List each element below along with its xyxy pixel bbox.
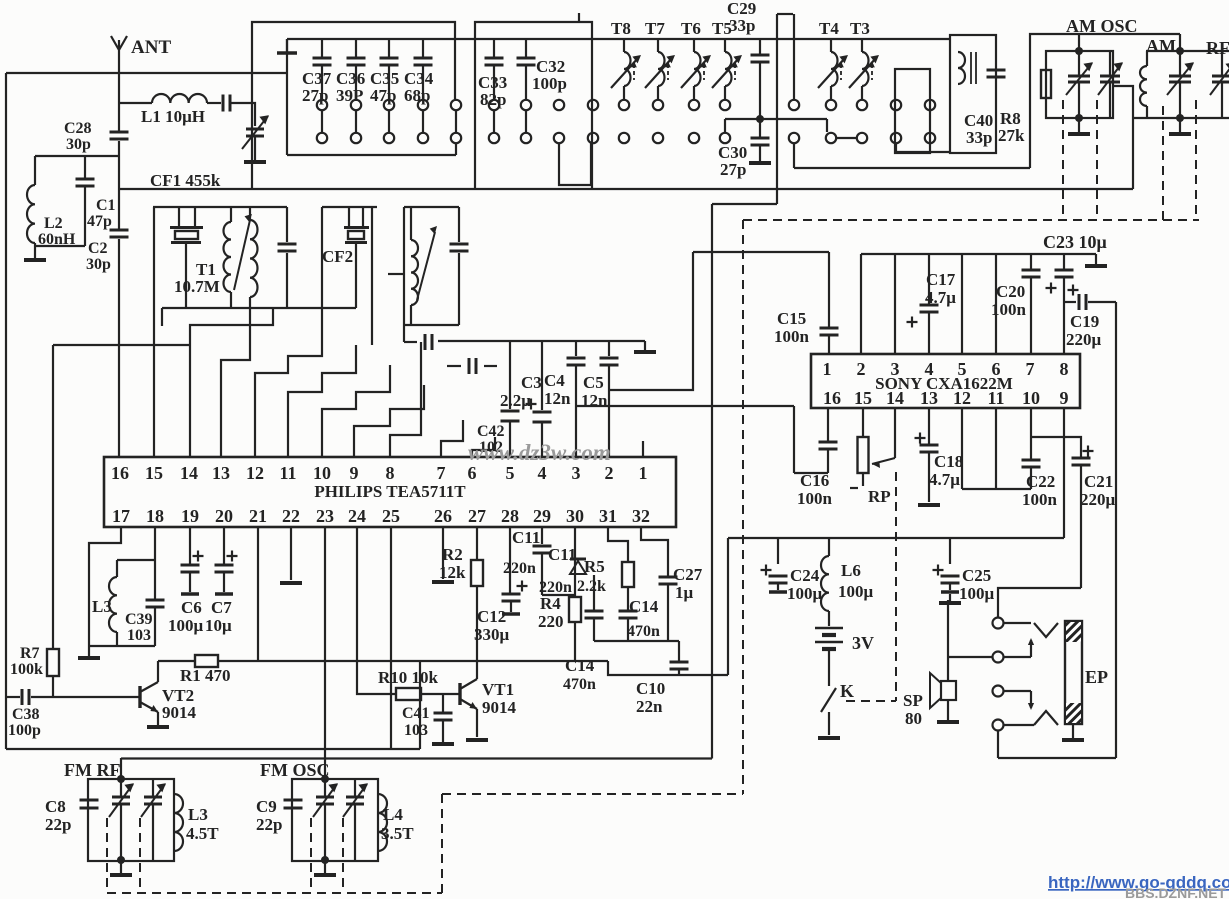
capacitor C39 103	[154, 527, 156, 599]
svg-text:4.7μ: 4.7μ	[929, 470, 960, 489]
capacitor C11 220n (pin29)	[541, 527, 543, 544]
wire: pin5 to rail	[961, 254, 963, 354]
svg-text:100n: 100n	[774, 327, 810, 346]
capacitor C5 12n	[608, 341, 610, 356]
trimmer capacitor (AM)	[1179, 51, 1181, 75]
ground (EP)	[1072, 724, 1074, 738]
svg-text:100μ: 100μ	[168, 616, 204, 635]
svg-text:100k: 100k	[10, 661, 43, 678]
wire: pin25 to shield	[390, 527, 392, 749]
svg-text:C12: C12	[477, 607, 506, 626]
svg-text:9014: 9014	[162, 703, 197, 722]
wire: shield box right edge segment	[419, 661, 421, 749]
terminal circles (box2)	[489, 100, 499, 110]
svg-text:BBS.DZNF.NET: BBS.DZNF.NET	[1125, 885, 1227, 899]
svg-text:6: 6	[992, 359, 1001, 379]
svg-text:C8: C8	[45, 797, 66, 816]
svg-text:C14: C14	[629, 597, 659, 616]
wire: pin10 branch to C21	[1031, 437, 1081, 457]
svg-text:100n: 100n	[1022, 490, 1058, 509]
terminal circles (column x=794)	[789, 100, 799, 110]
svg-text:C7: C7	[211, 598, 232, 617]
svg-text:SP: SP	[903, 691, 923, 710]
terminal circles (T5)	[720, 100, 730, 110]
wire: pin6 staircase	[472, 437, 495, 457]
svg-text:22n: 22n	[636, 697, 663, 716]
capacitor C28	[110, 131, 129, 134]
wire: long horizontal to R7 branch	[53, 344, 190, 346]
wire: cluster bottom rail	[594, 640, 679, 642]
ground (L2)	[34, 246, 36, 258]
wire: pin23 to FM OSC tank	[324, 527, 326, 779]
ground (VT2 emitter)	[147, 725, 169, 729]
wire: oscillator vertical line B	[793, 14, 795, 99]
svg-text:PHILIPS TEA5711T: PHILIPS TEA5711T	[314, 482, 466, 501]
transistor VT1 9014	[458, 683, 461, 705]
ground (antenna trimmer)	[244, 160, 266, 164]
svg-text:T3: T3	[850, 19, 870, 38]
svg-text:2: 2	[605, 463, 614, 483]
tunable coil T4	[830, 39, 832, 52]
dashed gang link (tuning capacitor mechanical link)	[743, 219, 1199, 221]
svg-text:4.7μ: 4.7μ	[925, 288, 956, 307]
svg-text:12n: 12n	[581, 391, 608, 410]
jack arm arrow (bottom)	[1030, 691, 1032, 708]
svg-text:4: 4	[925, 359, 934, 379]
svg-text:5: 5	[958, 359, 967, 379]
jack contact V (top)	[1034, 623, 1058, 637]
wire: circle2 to arm	[1004, 656, 1031, 658]
svg-text:C19: C19	[1070, 312, 1099, 331]
wire: AM OSC to AM tank coupling	[1113, 86, 1133, 118]
terminal circles (C34 column)	[418, 100, 428, 110]
wire: CF2 section edges	[322, 206, 377, 208]
wire: V+ rail drop	[727, 538, 729, 675]
wire: FM RF feed	[120, 758, 122, 779]
wire: circle1 to contact	[1004, 622, 1031, 624]
wire: pin12 staircase	[255, 326, 322, 457]
ground (pin22)	[290, 527, 292, 580]
resistor (pin31 branch)	[608, 527, 628, 562]
wire: circle4 to output loop	[997, 730, 999, 758]
svg-text:103: 103	[404, 722, 428, 739]
transistor VT2 9014	[138, 686, 141, 708]
capacitor C22 100n (pin10)	[1030, 408, 1032, 459]
trimmer capacitor (RF)	[1221, 51, 1223, 75]
svg-text:32: 32	[632, 506, 650, 526]
wire: pin11 to bottom rail	[995, 408, 997, 489]
svg-text:9: 9	[350, 463, 359, 483]
svg-text:www.dz3w.com: www.dz3w.com	[468, 440, 611, 465]
svg-text:12n: 12n	[544, 389, 571, 408]
svg-text:30: 30	[566, 506, 584, 526]
wire: junction row to terminals	[725, 118, 827, 120]
svg-text:100p: 100p	[8, 722, 41, 739]
svg-text:C11: C11	[512, 528, 540, 547]
resistor R2 12k (pin27)	[476, 527, 478, 560]
IC U2 SONY CXA1622M body	[811, 354, 1080, 408]
node junction (AM tank top)	[1176, 47, 1184, 55]
jack terminal circle 2	[993, 652, 1004, 663]
capacitor C14 470n (pin31 branch)	[627, 587, 629, 610]
wire: small box around terminal columns	[895, 69, 930, 153]
svg-text:C42: C42	[477, 423, 505, 440]
capacitor C3 2.2u (on pin 4)	[541, 341, 543, 410]
svg-text:22p: 22p	[256, 815, 282, 834]
resistor R7 100k	[47, 649, 59, 676]
wire: antenna vertical main line	[118, 55, 120, 131]
wire: AM OSC tank box	[1046, 51, 1113, 118]
wire: circle4 to contact	[1004, 724, 1034, 726]
capacitor C23 10u (pin8)	[1063, 254, 1065, 269]
trimmer capacitor (antenna input)	[246, 128, 264, 131]
capacitor C27 1u (pin32)	[641, 527, 668, 576]
wire: V+ top rail	[861, 253, 1096, 255]
wire: tank bottom rail	[89, 645, 155, 647]
svg-text:CF2: CF2	[322, 247, 353, 266]
svg-text:T8: T8	[611, 19, 631, 38]
resistor R1 470	[195, 655, 218, 667]
svg-text:100n: 100n	[991, 300, 1027, 319]
wire: FM RF tank box	[88, 779, 174, 861]
capacitor C1	[84, 156, 86, 178]
capacitor (under R5)	[593, 575, 595, 610]
wire: outer shield box left edge	[5, 73, 7, 749]
svg-text:21: 21	[249, 506, 267, 526]
node junction (C29/C30)	[756, 115, 764, 123]
ceramic filter CF2	[348, 207, 350, 226]
capacitor C21 220u	[1083, 446, 1094, 457]
svg-text:100p: 100p	[532, 74, 567, 93]
terminal circles (C36 column)	[351, 100, 361, 110]
svg-text:24: 24	[348, 506, 366, 526]
ground (rail end)	[644, 341, 646, 350]
svg-text:25: 25	[382, 506, 400, 526]
svg-text:T7: T7	[645, 19, 665, 38]
ground (FM OSC tank)	[324, 861, 326, 873]
inductor (T1 primary)	[230, 207, 232, 222]
wire: pin24 to R10	[357, 527, 396, 694]
ground (battery)	[818, 736, 840, 740]
ground (VT1 emitter)	[466, 738, 488, 742]
capacitor C33 82p	[493, 39, 495, 57]
svg-text:AM: AM	[1146, 36, 1176, 56]
capacitor C42 (on pin 5)	[509, 341, 511, 409]
svg-text:C41: C41	[402, 705, 430, 722]
wiper arrow RP (pin14)	[894, 408, 896, 458]
svg-text:L2: L2	[44, 215, 63, 232]
capacitor C10 22n	[678, 641, 680, 661]
svg-text:L3: L3	[92, 597, 112, 616]
svg-text:26: 26	[434, 506, 452, 526]
capacitor C24 100u	[777, 538, 779, 564]
wire: pin7 staircase	[441, 420, 463, 457]
svg-text:3: 3	[891, 359, 900, 379]
svg-text:16: 16	[823, 388, 841, 408]
resistor R4 220 (pin30)	[574, 527, 576, 597]
capacitor (IF transformer 2 tank)	[458, 207, 460, 242]
svg-text:R7: R7	[20, 645, 40, 662]
svg-text:27k: 27k	[998, 126, 1025, 145]
svg-text:C11: C11	[548, 545, 576, 564]
wire: gang box1 inner left edge	[286, 39, 288, 155]
capacitor C37 27p	[321, 39, 323, 57]
svg-text:9014: 9014	[482, 698, 517, 717]
svg-text:12: 12	[246, 463, 264, 483]
tuning arrow (IF transformer 2)	[417, 232, 435, 300]
svg-text:14: 14	[886, 388, 904, 408]
node junction (FM RF top)	[117, 775, 125, 783]
jack terminal circle 4	[993, 720, 1004, 731]
wire: T1 section left edge (to pin 15)	[153, 207, 155, 457]
capacitor C35 47p	[388, 39, 390, 57]
svg-text:4.5T: 4.5T	[186, 824, 219, 843]
svg-text:C9: C9	[256, 797, 277, 816]
ground (speaker)	[947, 700, 949, 720]
svg-text:17: 17	[112, 506, 130, 526]
wire: R7 to VT2 base node	[52, 676, 54, 697]
wire: pin3 to rail	[894, 254, 896, 354]
node junction (FM RF bottom)	[117, 856, 125, 864]
svg-text:C6: C6	[181, 598, 202, 617]
svg-text:C15: C15	[777, 309, 806, 328]
switch K	[828, 651, 830, 686]
terminal circles (T8)	[619, 100, 629, 110]
svg-text:C20: C20	[996, 282, 1025, 301]
battery 3V	[828, 611, 830, 626]
resistor (AM OSC, R8)	[1041, 70, 1051, 98]
wire: V+ rail	[728, 537, 1064, 539]
wire: IF transformer 2 edges	[404, 206, 459, 208]
node junction (AM OSC bottom)	[1075, 114, 1083, 122]
svg-text:C5: C5	[583, 373, 604, 392]
ground (rail end)	[1095, 254, 1097, 264]
capacitor C29	[759, 39, 761, 54]
svg-text:C16: C16	[800, 471, 829, 490]
svg-text:2.2μ: 2.2μ	[500, 391, 531, 410]
wire: pin11 staircase	[288, 345, 356, 457]
svg-text:30p: 30p	[66, 136, 91, 153]
node junction (AM tank bottom)	[1176, 114, 1184, 122]
earphone EP body	[1065, 621, 1082, 724]
svg-text:47p: 47p	[87, 213, 112, 230]
wire: C21 to earphone jack	[998, 588, 1081, 617]
jack terminal circle 3	[993, 686, 1004, 697]
svg-text:C39: C39	[125, 611, 153, 628]
svg-text:27p: 27p	[720, 160, 746, 179]
svg-text:T4: T4	[819, 19, 839, 38]
svg-text:29: 29	[533, 506, 551, 526]
wire: pin10 staircase	[322, 365, 390, 457]
svg-text:C4: C4	[544, 371, 565, 390]
svg-text:19: 19	[181, 506, 199, 526]
wire: column 896 jog to oscillator box	[896, 143, 950, 152]
wire: speaker line to circle2	[948, 656, 992, 658]
capacitor C9 22p	[284, 799, 303, 802]
svg-text:3V: 3V	[852, 633, 874, 653]
svg-text:11: 11	[987, 388, 1004, 408]
capacitor C32 100p	[525, 39, 527, 57]
svg-text:RF: RF	[1206, 38, 1229, 58]
svg-text:100n: 100n	[797, 489, 833, 508]
svg-text:11: 11	[279, 463, 296, 483]
inductor L4 3.5T	[378, 794, 387, 851]
wire: R10 to VT1 base	[421, 693, 459, 695]
inductor (T1 secondary)	[249, 207, 251, 220]
svg-text:20: 20	[215, 506, 233, 526]
stub terminal on top bus	[286, 39, 288, 52]
svg-text:L6: L6	[841, 561, 861, 580]
svg-text:220μ: 220μ	[1066, 330, 1102, 349]
svg-text:60nH: 60nH	[38, 231, 76, 248]
wire: pin14 riser	[190, 307, 273, 457]
svg-text:2.2k: 2.2k	[577, 578, 606, 595]
svg-text:C25: C25	[962, 566, 991, 585]
svg-text:C1: C1	[96, 197, 116, 214]
wire: decoupling rail above pins 2-5	[438, 340, 645, 342]
svg-text:470n: 470n	[627, 623, 660, 640]
svg-text:8: 8	[1060, 359, 1069, 379]
wire: pin2 to rail	[860, 254, 862, 354]
svg-text:103: 103	[127, 627, 151, 644]
svg-text:C22: C22	[1026, 472, 1055, 491]
speaker SP 80	[941, 681, 956, 700]
svg-text:K: K	[840, 681, 854, 701]
tunable coil T6	[693, 39, 695, 52]
capacitor C6 100u	[189, 527, 191, 564]
svg-text:220μ: 220μ	[1080, 490, 1116, 509]
wire: C18/C22 bottom rail	[962, 488, 1031, 490]
svg-text:100μ: 100μ	[959, 584, 995, 603]
wire: gang box1 inner bottom	[287, 154, 456, 156]
inductor L1	[152, 94, 207, 103]
terminal circles (T7)	[653, 100, 663, 110]
wire: IF transformer 2 stub	[388, 273, 404, 275]
ground (pin26)	[442, 527, 444, 579]
ground (tank)	[88, 646, 90, 656]
svg-text:1: 1	[639, 463, 648, 483]
terminal circles (T6)	[689, 100, 699, 110]
svg-text:L4: L4	[383, 805, 403, 824]
wire: circle3 to arm	[1004, 690, 1031, 692]
svg-text:C21: C21	[1084, 472, 1113, 491]
svg-text:L3: L3	[188, 805, 208, 824]
ground (AM OSC)	[1078, 118, 1080, 132]
svg-text:L1 10μH: L1 10μH	[141, 107, 205, 126]
inductor L2	[34, 156, 36, 185]
svg-text:3: 3	[572, 463, 581, 483]
wire: box2 right columns to bottom jog	[559, 143, 591, 185]
svg-text:28: 28	[501, 506, 519, 526]
svg-text:C28: C28	[64, 120, 92, 137]
wire: AM tank to CF1 line	[1132, 118, 1134, 189]
wire: pin9 staircase	[354, 385, 424, 457]
wire: pin6 to rail	[995, 254, 997, 354]
svg-text:5: 5	[506, 463, 515, 483]
svg-text:C18: C18	[934, 452, 963, 471]
jack arm arrow (top)	[1030, 640, 1032, 657]
svg-text:220: 220	[538, 612, 564, 631]
wire: FM OSC tank box	[292, 779, 378, 861]
wire: pin13 staircase	[221, 326, 250, 457]
terminal circles (T4)	[826, 100, 836, 110]
svg-text:9: 9	[1060, 388, 1069, 408]
terminal circles (C35 column)	[384, 100, 394, 110]
svg-text:15: 15	[854, 388, 872, 408]
capacitor (coupling, horizontal)	[424, 334, 427, 350]
svg-text:ANT: ANT	[131, 37, 171, 58]
capacitor C38 100p	[6, 696, 20, 698]
wire: base wire to VT2	[53, 696, 139, 698]
wire: collector to R1	[158, 660, 195, 662]
svg-text:14: 14	[180, 463, 198, 483]
wire: outer shield box top edge	[6, 72, 287, 74]
diode R5 (zener) with label R5 2.2k	[570, 561, 586, 574]
svg-text:C3: C3	[521, 373, 542, 392]
svg-text:RP: RP	[868, 487, 891, 506]
svg-text:23: 23	[316, 506, 334, 526]
capacitor C16 100n (pin16)	[827, 408, 829, 441]
capacitor C36 39P	[355, 39, 357, 57]
svg-text:33p: 33p	[729, 16, 755, 35]
ground (FM RF tank)	[120, 861, 122, 873]
capacitor C7 10u	[223, 527, 225, 564]
wire: feed from oscillator line	[794, 167, 1030, 169]
tuning arrow (T1)	[234, 220, 250, 290]
wire: output loop right vertical	[1115, 302, 1117, 758]
wire: AM tank rails	[1146, 50, 1229, 52]
svg-text:100μ: 100μ	[787, 584, 823, 603]
wire: pin2 to amplifier input	[609, 252, 693, 390]
ground (C30)	[759, 146, 761, 161]
svg-text:C38: C38	[12, 706, 40, 723]
svg-text:13: 13	[920, 388, 938, 408]
tunable coil T8	[623, 39, 625, 52]
capacitor C2	[110, 229, 129, 232]
wire: pin8 to C19	[1064, 301, 1076, 303]
wire: pin21 to long wire	[257, 527, 259, 661]
wire: AM OSC feed stub	[1078, 34, 1080, 51]
svg-text:100μ: 100μ	[838, 582, 874, 601]
svg-text:22: 22	[282, 506, 300, 526]
wire: R7 branch vertical	[52, 345, 54, 649]
svg-text:31: 31	[599, 506, 617, 526]
capacitor C4 12n	[575, 341, 577, 356]
trimmer capacitor (FM RF 2)	[152, 779, 154, 796]
inductor (IF transformer 2)	[410, 207, 412, 240]
IC U1 PHILIPS TEA5711T body	[104, 457, 676, 527]
terminal circles (columns 896/930)	[891, 100, 901, 110]
wire: top bracket over oscillator lines	[777, 13, 793, 15]
capacitor C25 100u	[949, 538, 951, 564]
trimmer capacitor (AM OSC 2)	[1109, 51, 1111, 75]
svg-text:15: 15	[145, 463, 163, 483]
wire: pin9 to V+ rail	[1063, 408, 1065, 538]
svg-text:470n: 470n	[563, 676, 596, 693]
svg-text:30p: 30p	[86, 256, 111, 273]
capacitor C41 103	[442, 694, 444, 712]
ground (C25)	[949, 594, 951, 601]
svg-text:2: 2	[857, 359, 866, 379]
capacitor C19 220u	[1078, 294, 1081, 310]
wire: oscillator transformer box	[950, 35, 996, 153]
capacitor C20 100n (pin7)	[1030, 254, 1032, 269]
stub pin1	[642, 441, 644, 457]
svg-text:R2: R2	[442, 545, 463, 564]
svg-text:1μ: 1μ	[675, 583, 694, 602]
wire: CF1 455k long horizontal line	[119, 188, 1133, 190]
svg-text:VT1: VT1	[482, 680, 514, 699]
